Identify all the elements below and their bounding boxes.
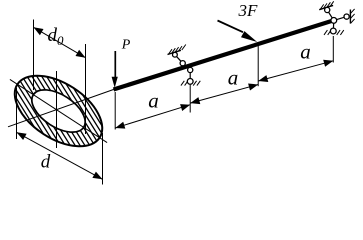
svg-text:a: a <box>148 89 159 113</box>
svg-text:a: a <box>300 40 311 64</box>
svg-text:a: a <box>228 65 239 89</box>
svg-text:d: d <box>41 152 51 173</box>
svg-text:3F: 3F <box>238 1 259 20</box>
svg-text:P: P <box>121 38 131 53</box>
